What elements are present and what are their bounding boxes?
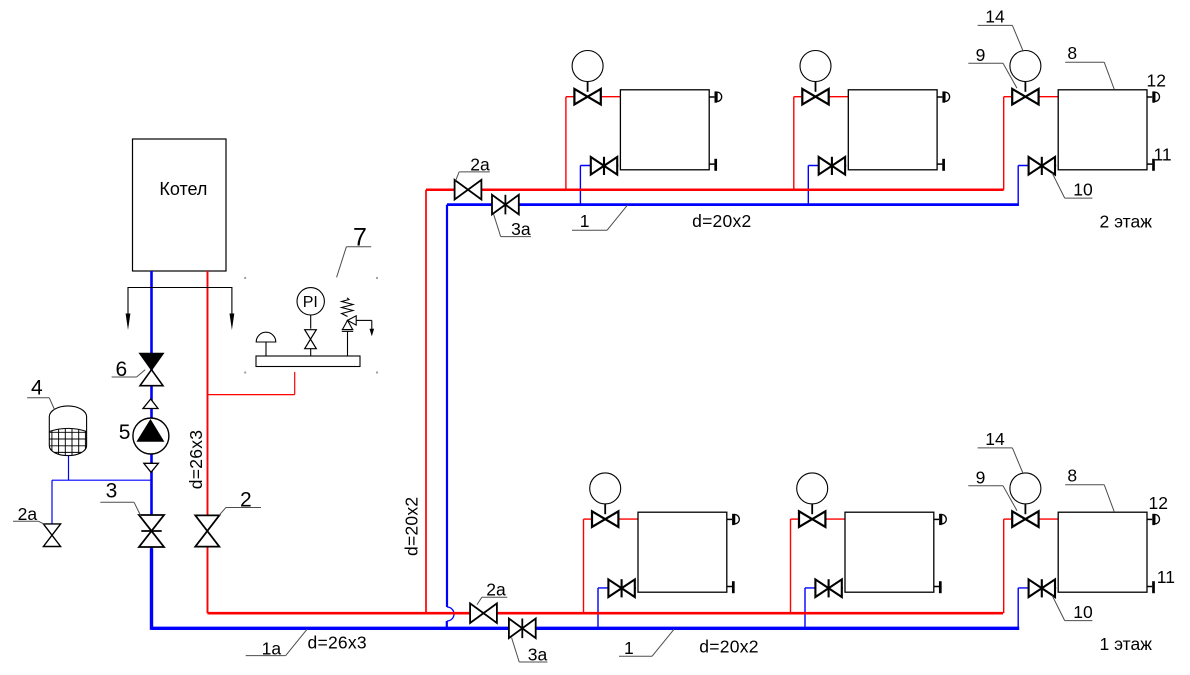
svg-text:10: 10 [1073, 602, 1093, 622]
svg-text:12: 12 [1147, 71, 1166, 91]
thermostatic valve on radiator 1 floor 2 [574, 82, 600, 105]
wire: blue riser between floors with hop over red main [447, 205, 454, 630]
svg-text:10: 10 [1073, 180, 1093, 200]
thermostatic head on radiator 3 floor 1 [1010, 473, 1041, 504]
label 2 with leader [219, 488, 261, 515]
expansion tank 4 [48, 406, 88, 456]
label 12 (air vent) floor 2 [1147, 71, 1166, 91]
label d=26x3 (boiler red pipe, rotated) [186, 430, 206, 489]
label d=26x3 floor 1 [308, 633, 367, 653]
radiator 2 floor 2 [848, 90, 937, 170]
safety group: air vent dome [256, 332, 276, 356]
wire: red stub valve to radiator 3 floor 1 [1039, 518, 1059, 520]
svg-text:14: 14 [985, 7, 1005, 27]
label 2a (floor 1) with leader [477, 579, 507, 604]
return lockshield valve on radiator 2 floor 2 [819, 157, 845, 175]
wire: thin blue line tank to return pipe [52, 456, 152, 525]
thermostatic valve on radiator 3 floor 2 [1012, 82, 1038, 105]
floor label: 1 этаж [1100, 634, 1153, 654]
valve 2a on floor-2 red main [455, 180, 482, 200]
safety group: safety relief valve with spring [342, 298, 375, 356]
label 11 (drain plug) floor 2 [1154, 145, 1172, 165]
radiator 3 floor 1 [1058, 512, 1147, 592]
wire: blue return from radiator 3 floor 1 [1018, 588, 1056, 628]
svg-text:11: 11 [1154, 145, 1172, 165]
svg-text:11: 11 [1157, 567, 1175, 587]
label 1 (floor-2 mains) with leader [572, 205, 628, 231]
valve 2 on red pipe [195, 515, 219, 546]
label 5 [119, 421, 131, 444]
label 4 with leader [27, 377, 54, 410]
air vent on radiator 2 floor 1 [934, 514, 947, 525]
label 10 (lockshield valve) floor 1 [1052, 595, 1093, 622]
label 1a (boiler mains) with leader [246, 629, 307, 658]
wire: red supply drop to radiator 3 floor 1 [1004, 519, 1013, 613]
drain plug on radiator 3 floor 2 [1147, 159, 1154, 171]
svg-text:12: 12 [1149, 493, 1168, 513]
svg-text:PI: PI [303, 294, 318, 311]
wire: red stub valve to radiator 2 floor 1 [825, 518, 845, 520]
wire: blue return from radiator 1 floor 2 [580, 166, 618, 205]
svg-text:d=20x2: d=20x2 [692, 211, 751, 231]
wire: red supply pipe from boiler down to valve 2 and floor-1 main [207, 271, 209, 613]
valve 3 on blue pipe [139, 515, 164, 547]
valve 6 (check valve, top half filled) on blue pipe [140, 354, 163, 386]
wire: blue return pipe from boiler down to pump and valve 3 [150, 271, 153, 549]
svg-text:3a: 3a [528, 644, 548, 664]
wire: blue return from radiator 2 floor 2 [808, 166, 846, 205]
valve 3a on floor-2 blue main [492, 195, 519, 215]
safety group: pressure gauge PI [297, 288, 324, 356]
drain plug on radiator 1 floor 2 [709, 159, 716, 171]
radiator 1 floor 2 [620, 90, 709, 170]
thermostatic valve on radiator 3 floor 1 [1012, 504, 1038, 527]
air vent on radiator 1 floor 1 [727, 514, 740, 525]
svg-text:d=20x2: d=20x2 [699, 637, 758, 657]
wire: red stub valve to radiator 1 floor 1 [618, 518, 638, 520]
thermostatic head on radiator 2 floor 1 [797, 473, 828, 504]
thermostatic head on radiator 1 floor 2 [572, 51, 603, 82]
floor label: 2 этаж [1100, 212, 1153, 232]
radiator 1 floor 1 [638, 512, 727, 592]
label 2a (floor 2) with leader [456, 154, 490, 180]
label d=20x2 floor 2 [692, 211, 751, 231]
svg-text:3: 3 [106, 480, 118, 503]
label 11 (drain plug) floor 1 [1157, 567, 1175, 587]
radiator 2 floor 1 [845, 512, 934, 592]
wire: red supply drop to radiator 3 floor 2 [1004, 97, 1013, 190]
svg-text:14: 14 [985, 429, 1005, 449]
label 6 with leader [112, 358, 146, 381]
svg-text:8: 8 [1067, 43, 1077, 63]
wire: red stub valve to radiator 1 floor 2 [601, 96, 621, 98]
svg-text:2a: 2a [486, 579, 506, 599]
flow-direction bracket with arrows under boiler [126, 288, 235, 331]
wire: red supply drop to radiator 2 floor 2 [794, 97, 803, 190]
return lockshield valve on radiator 3 floor 2 [1029, 157, 1055, 175]
thermostatic head on radiator 1 floor 1 [590, 473, 621, 504]
wire: red stub valve to radiator 2 floor 2 [829, 96, 849, 98]
label 10 (lockshield valve) floor 2 [1052, 173, 1093, 200]
valve 2a on floor-1 red main [470, 603, 497, 623]
label 7 with leader [337, 223, 372, 277]
svg-text:d=20x2: d=20x2 [402, 497, 422, 556]
small cone fitting below pump [144, 463, 159, 472]
svg-text:9: 9 [976, 45, 986, 65]
thermostatic valve on radiator 2 floor 2 [802, 82, 828, 105]
thermostatic valve on radiator 1 floor 1 [592, 504, 618, 527]
svg-text:1: 1 [624, 638, 634, 658]
svg-text:8: 8 [1067, 466, 1077, 486]
wire: red riser between floors d=20x2 [425, 190, 427, 614]
label 3 with leader [100, 480, 140, 516]
wire: red supply drop to radiator 1 floor 2 [566, 97, 575, 190]
svg-text:1: 1 [580, 211, 590, 231]
label 8 (radiator) floor 1 [1065, 466, 1114, 512]
radiator 3 floor 2 [1058, 90, 1147, 170]
return lockshield valve on radiator 1 floor 2 [591, 157, 617, 175]
air vent on radiator 1 floor 2 [709, 91, 721, 102]
svg-text:1 этаж: 1 этаж [1100, 634, 1153, 654]
label d=20x2 floor 1 [699, 637, 758, 657]
svg-text:5: 5 [119, 421, 131, 444]
air vent on radiator 3 floor 2 [1147, 91, 1160, 102]
svg-text:2 этаж: 2 этаж [1100, 212, 1153, 232]
thermostatic head on radiator 3 floor 2 [1010, 51, 1041, 82]
valve 3a on floor-1 blue main [509, 619, 536, 639]
wire: red supply drop to radiator 2 floor 1 [791, 519, 800, 613]
svg-text:Котел: Котел [159, 179, 207, 199]
label 3a (floor 2) with leader [494, 214, 531, 239]
wire: red supply drop to radiator 1 floor 1 [584, 519, 593, 613]
label 2a with leader [13, 504, 45, 524]
thermostatic head on radiator 2 floor 2 [800, 51, 831, 82]
drain plug on radiator 1 floor 1 [727, 581, 734, 593]
label d=20x2 (riser, rotated) [402, 497, 422, 556]
wire: blue return from radiator 2 floor 1 [805, 588, 843, 628]
label 14 (thermostatic head) floor 1 [978, 429, 1024, 474]
drain valve 2a (left, on tank line) [43, 524, 60, 547]
svg-text:9: 9 [976, 468, 986, 488]
wire: red branch to safety group 7 [208, 372, 295, 395]
wire: blue return vertical down to floor-1 main [150, 549, 153, 630]
thermostatic valve on radiator 2 floor 1 [799, 504, 825, 527]
label 14 (thermostatic head) floor 2 [978, 7, 1024, 52]
return lockshield valve on radiator 3 floor 1 [1029, 579, 1055, 597]
small cone fitting above pump [143, 399, 158, 409]
boiler Котел [133, 139, 227, 271]
wire: blue return from radiator 1 floor 1 [598, 588, 636, 628]
label 8 (radiator) floor 2 [1065, 43, 1114, 89]
label 12 (air vent) floor 1 [1149, 493, 1168, 513]
svg-text:d=26x3: d=26x3 [308, 633, 367, 653]
drain plug on radiator 2 floor 2 [937, 159, 944, 171]
return lockshield valve on radiator 2 floor 1 [815, 579, 841, 597]
svg-text:d=26x3: d=26x3 [186, 430, 206, 489]
label 1 (floor-1 mains) with leader [619, 629, 674, 658]
air vent on radiator 2 floor 2 [937, 91, 950, 102]
label 9 (thermostatic valve) floor 1 [968, 468, 1017, 511]
wire: floor-2 blue return main [447, 203, 1019, 206]
label 3a (floor 1) with leader [512, 638, 548, 665]
return lockshield valve on radiator 1 floor 1 [608, 579, 634, 597]
label 9 (thermostatic valve) floor 2 [968, 45, 1017, 88]
safety group 7: platform [256, 356, 360, 367]
pump 5 (circle with filled triangle) [133, 418, 169, 454]
air vent on radiator 3 floor 1 [1147, 514, 1160, 525]
wire: floor-1 red supply main [208, 612, 1004, 615]
svg-text:4: 4 [31, 377, 43, 400]
wire: red stub valve to radiator 3 floor 2 [1039, 96, 1059, 98]
wire: blue return from radiator 3 floor 2 [1018, 166, 1056, 205]
wire: floor-2 red supply main [426, 188, 1004, 191]
wire: floor-1 blue return main [152, 627, 1020, 630]
reference dots around safety group [244, 277, 378, 374]
drain plug on radiator 3 floor 1 [1147, 581, 1154, 593]
drain plug on radiator 2 floor 1 [934, 581, 941, 593]
